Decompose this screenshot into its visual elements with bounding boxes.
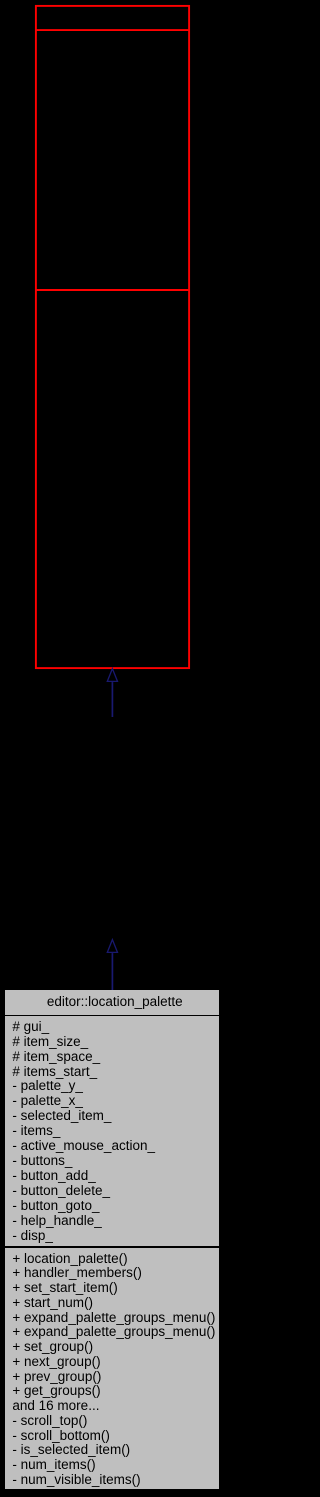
inheritance arrow upper shaft [111,682,113,717]
attributes compartment [5,1016,219,1246]
class editor::location_palette : title compartment [5,990,219,1015]
red box compartment divider 1 [35,29,190,31]
inheritance arrow lower shaft [111,953,113,990]
methods compartment [5,1248,219,1489]
class box (base class, red outline, text invisible on black) [35,6,190,668]
inheritance arrow upper (to red box) : hollow head [107,669,117,717]
inheritance arrow lower (to hidden intermediate node) : hollow head [107,940,117,990]
red box compartment divider 2 [35,289,190,291]
